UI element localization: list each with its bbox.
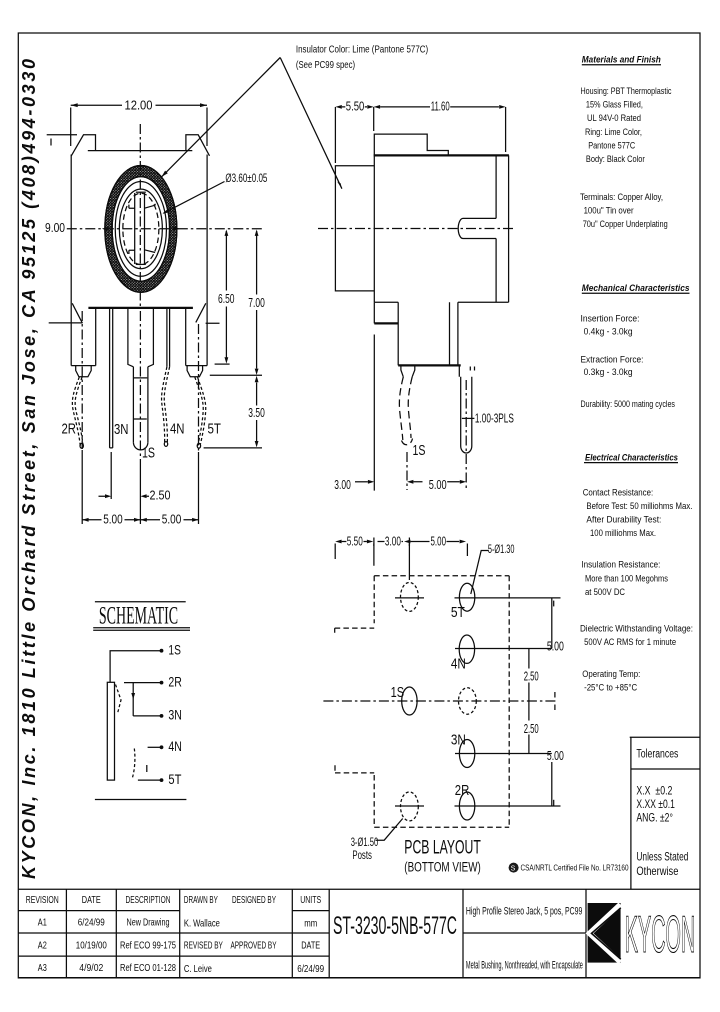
svg-text:4N: 4N xyxy=(451,656,466,673)
svg-text:X.X ±0.2: X.X ±0.2 xyxy=(636,784,672,798)
svg-text:6.50: 6.50 xyxy=(218,291,235,306)
svg-text:100 milliohms Max.: 100 milliohms Max. xyxy=(590,528,656,538)
svg-text:A2: A2 xyxy=(38,939,47,951)
svg-text:5.00: 5.00 xyxy=(431,533,447,548)
svg-text:5.00: 5.00 xyxy=(429,477,447,492)
svg-text:Ring: Lime Color,: Ring: Lime Color, xyxy=(585,127,642,137)
svg-text:Housing: PBT Thermoplastic: Housing: PBT Thermoplastic xyxy=(581,86,672,96)
svg-text:Before Test: 50 milliohms Max.: Before Test: 50 milliohms Max. xyxy=(586,501,692,511)
svg-text:(BOTTOM VIEW): (BOTTOM VIEW) xyxy=(404,860,481,875)
svg-text:3N: 3N xyxy=(168,707,182,723)
svg-text:11.60: 11.60 xyxy=(431,99,450,114)
svg-text:Extraction Force:: Extraction Force: xyxy=(581,355,644,365)
svg-text:5-Ø1.30: 5-Ø1.30 xyxy=(488,542,515,556)
svg-text:5.00: 5.00 xyxy=(103,512,123,527)
svg-text:REVISION: REVISION xyxy=(26,894,59,906)
svg-text:5.50: 5.50 xyxy=(346,99,365,114)
svg-text:SCHEMATIC: SCHEMATIC xyxy=(99,603,178,630)
svg-text:DATE: DATE xyxy=(82,894,101,906)
svg-text:at 500V DC: at 500V DC xyxy=(585,587,625,597)
svg-text:0.3kg - 3.0kg: 0.3kg - 3.0kg xyxy=(584,367,633,377)
svg-text:15% Glass Filled,: 15% Glass Filled, xyxy=(586,100,643,110)
svg-text:1S: 1S xyxy=(391,684,405,701)
svg-text:3.50: 3.50 xyxy=(248,405,264,420)
svg-text:S: S xyxy=(511,865,516,872)
svg-text:70u" Copper Underplating: 70u" Copper Underplating xyxy=(583,219,668,229)
svg-text:2R: 2R xyxy=(455,782,470,799)
svg-text:4N: 4N xyxy=(168,738,182,754)
svg-text:5.00: 5.00 xyxy=(162,512,182,527)
svg-text:2R: 2R xyxy=(168,673,182,689)
svg-text:Body: Black Color: Body: Black Color xyxy=(586,154,645,164)
svg-text:UL 94V-0 Rated: UL 94V-0 Rated xyxy=(587,113,641,123)
svg-text:Insulator Color: Lime (Pantone: Insulator Color: Lime (Pantone 577C) xyxy=(296,44,428,56)
svg-text:Contact Resistance:: Contact Resistance: xyxy=(583,487,654,497)
svg-text:Tolerances: Tolerances xyxy=(636,749,678,761)
svg-text:(See PC99 spec): (See PC99 spec) xyxy=(296,59,355,71)
svg-text:5T: 5T xyxy=(451,604,465,621)
svg-text:KYCON, Inc. 1810 Little Orchar: KYCON, Inc. 1810 Little Orchard Street, … xyxy=(19,59,39,879)
svg-text:Dielectric Withstanding Voltag: Dielectric Withstanding Voltage: xyxy=(580,623,693,633)
svg-text:5.50: 5.50 xyxy=(347,533,363,548)
svg-text:CSA/NRTL Certified File No. LR: CSA/NRTL Certified File No. LR73160 xyxy=(521,862,629,872)
svg-text:DATE: DATE xyxy=(301,939,320,951)
svg-text:2R: 2R xyxy=(62,421,77,438)
svg-text:3.00: 3.00 xyxy=(385,533,401,548)
svg-text:Unless Stated: Unless Stated xyxy=(636,850,688,864)
svg-text:3N: 3N xyxy=(451,732,466,749)
svg-text:Operating Temp:: Operating Temp: xyxy=(582,669,640,679)
svg-text:New Drawing: New Drawing xyxy=(127,916,170,928)
svg-text:DESCRIPTION: DESCRIPTION xyxy=(126,894,171,906)
svg-text:Mechanical Characteristics: Mechanical Characteristics xyxy=(582,283,690,294)
svg-text:3.00: 3.00 xyxy=(334,477,351,492)
svg-text:0.4kg - 3.0kg: 0.4kg - 3.0kg xyxy=(584,326,633,336)
svg-text:A1: A1 xyxy=(38,916,47,928)
svg-text:1S: 1S xyxy=(142,445,155,462)
svg-text:4N: 4N xyxy=(170,421,185,438)
svg-text:K. Wallace: K. Wallace xyxy=(184,918,220,930)
svg-text:6/24/99: 6/24/99 xyxy=(78,916,105,928)
svg-text:Materials and Finish: Materials and Finish xyxy=(582,55,661,66)
svg-text:APPROVED BY: APPROVED BY xyxy=(231,939,277,951)
svg-text:5T: 5T xyxy=(208,421,222,438)
svg-text:100u" Tin over: 100u" Tin over xyxy=(584,205,634,215)
svg-text:9.00: 9.00 xyxy=(45,220,65,235)
svg-text:DRAWN BY: DRAWN BY xyxy=(184,894,218,906)
svg-text:After Durability Test:: After Durability Test: xyxy=(586,515,661,525)
svg-text:PCB LAYOUT: PCB LAYOUT xyxy=(404,838,481,859)
svg-text:mm: mm xyxy=(304,918,317,930)
svg-text:2.50: 2.50 xyxy=(524,721,539,736)
svg-text:Ø3.60±0.05: Ø3.60±0.05 xyxy=(225,171,267,185)
svg-text:UNITS: UNITS xyxy=(300,894,321,906)
svg-text:6/24/99: 6/24/99 xyxy=(297,963,324,975)
svg-text:12.00: 12.00 xyxy=(125,97,153,112)
svg-text:KYCON: KYCON xyxy=(625,906,696,964)
svg-text:Terminals: Copper Alloy,: Terminals: Copper Alloy, xyxy=(580,192,663,202)
svg-text:C. Leive: C. Leive xyxy=(184,963,212,975)
svg-text:2.50: 2.50 xyxy=(150,488,171,503)
svg-text:ST-3230-5NB-577C: ST-3230-5NB-577C xyxy=(333,912,457,940)
svg-text:Ref ECO 99-175: Ref ECO 99-175 xyxy=(120,939,176,951)
svg-text:Durability: 5000 mating cycles: Durability: 5000 mating cycles xyxy=(581,399,676,409)
svg-text:3-Ø1.50: 3-Ø1.50 xyxy=(351,835,379,849)
svg-text:High Profile Stereo Jack, 5 po: High Profile Stereo Jack, 5 pos, PC99 xyxy=(466,906,582,918)
svg-text:Metal Bushing, Nonthreaded, wi: Metal Bushing, Nonthreaded, with Encapsu… xyxy=(466,960,583,972)
svg-text:1S: 1S xyxy=(168,642,181,658)
svg-text:-25°C to +85°C: -25°C to +85°C xyxy=(584,683,637,693)
svg-text:Insertion Force:: Insertion Force: xyxy=(581,314,640,324)
svg-text:Posts: Posts xyxy=(352,848,372,862)
svg-text:REVISED BY: REVISED BY xyxy=(184,939,223,951)
svg-text:500V AC RMS for 1 minute: 500V AC RMS for 1 minute xyxy=(584,637,676,647)
svg-text:10/19/00: 10/19/00 xyxy=(76,939,107,951)
svg-text:3N: 3N xyxy=(114,421,129,438)
svg-text:X.XX ±0.1: X.XX ±0.1 xyxy=(636,797,675,811)
svg-text:A3: A3 xyxy=(38,962,47,974)
svg-text:1.00-3PLS: 1.00-3PLS xyxy=(475,411,514,425)
svg-text:Electrical Characteristics: Electrical Characteristics xyxy=(585,452,678,463)
svg-text:Insulation Resistance:: Insulation Resistance: xyxy=(581,560,660,570)
svg-text:1S: 1S xyxy=(413,442,426,459)
svg-text:More than 100 Megohms: More than 100 Megohms xyxy=(585,573,668,583)
svg-text:DESIGNED BY: DESIGNED BY xyxy=(232,894,276,906)
svg-text:5T: 5T xyxy=(168,771,181,787)
svg-text:7.00: 7.00 xyxy=(248,295,264,310)
svg-text:Pantone 577C: Pantone 577C xyxy=(588,140,635,150)
svg-text:Otherwise: Otherwise xyxy=(636,864,678,878)
svg-text:ANG. ±2°: ANG. ±2° xyxy=(636,811,673,825)
svg-text:4/9/02: 4/9/02 xyxy=(79,962,103,974)
svg-text:Ref ECO 01-128: Ref ECO 01-128 xyxy=(120,962,176,974)
svg-text:5.00: 5.00 xyxy=(547,639,564,654)
svg-text:2.50: 2.50 xyxy=(524,668,539,683)
svg-text:5.00: 5.00 xyxy=(547,748,564,763)
